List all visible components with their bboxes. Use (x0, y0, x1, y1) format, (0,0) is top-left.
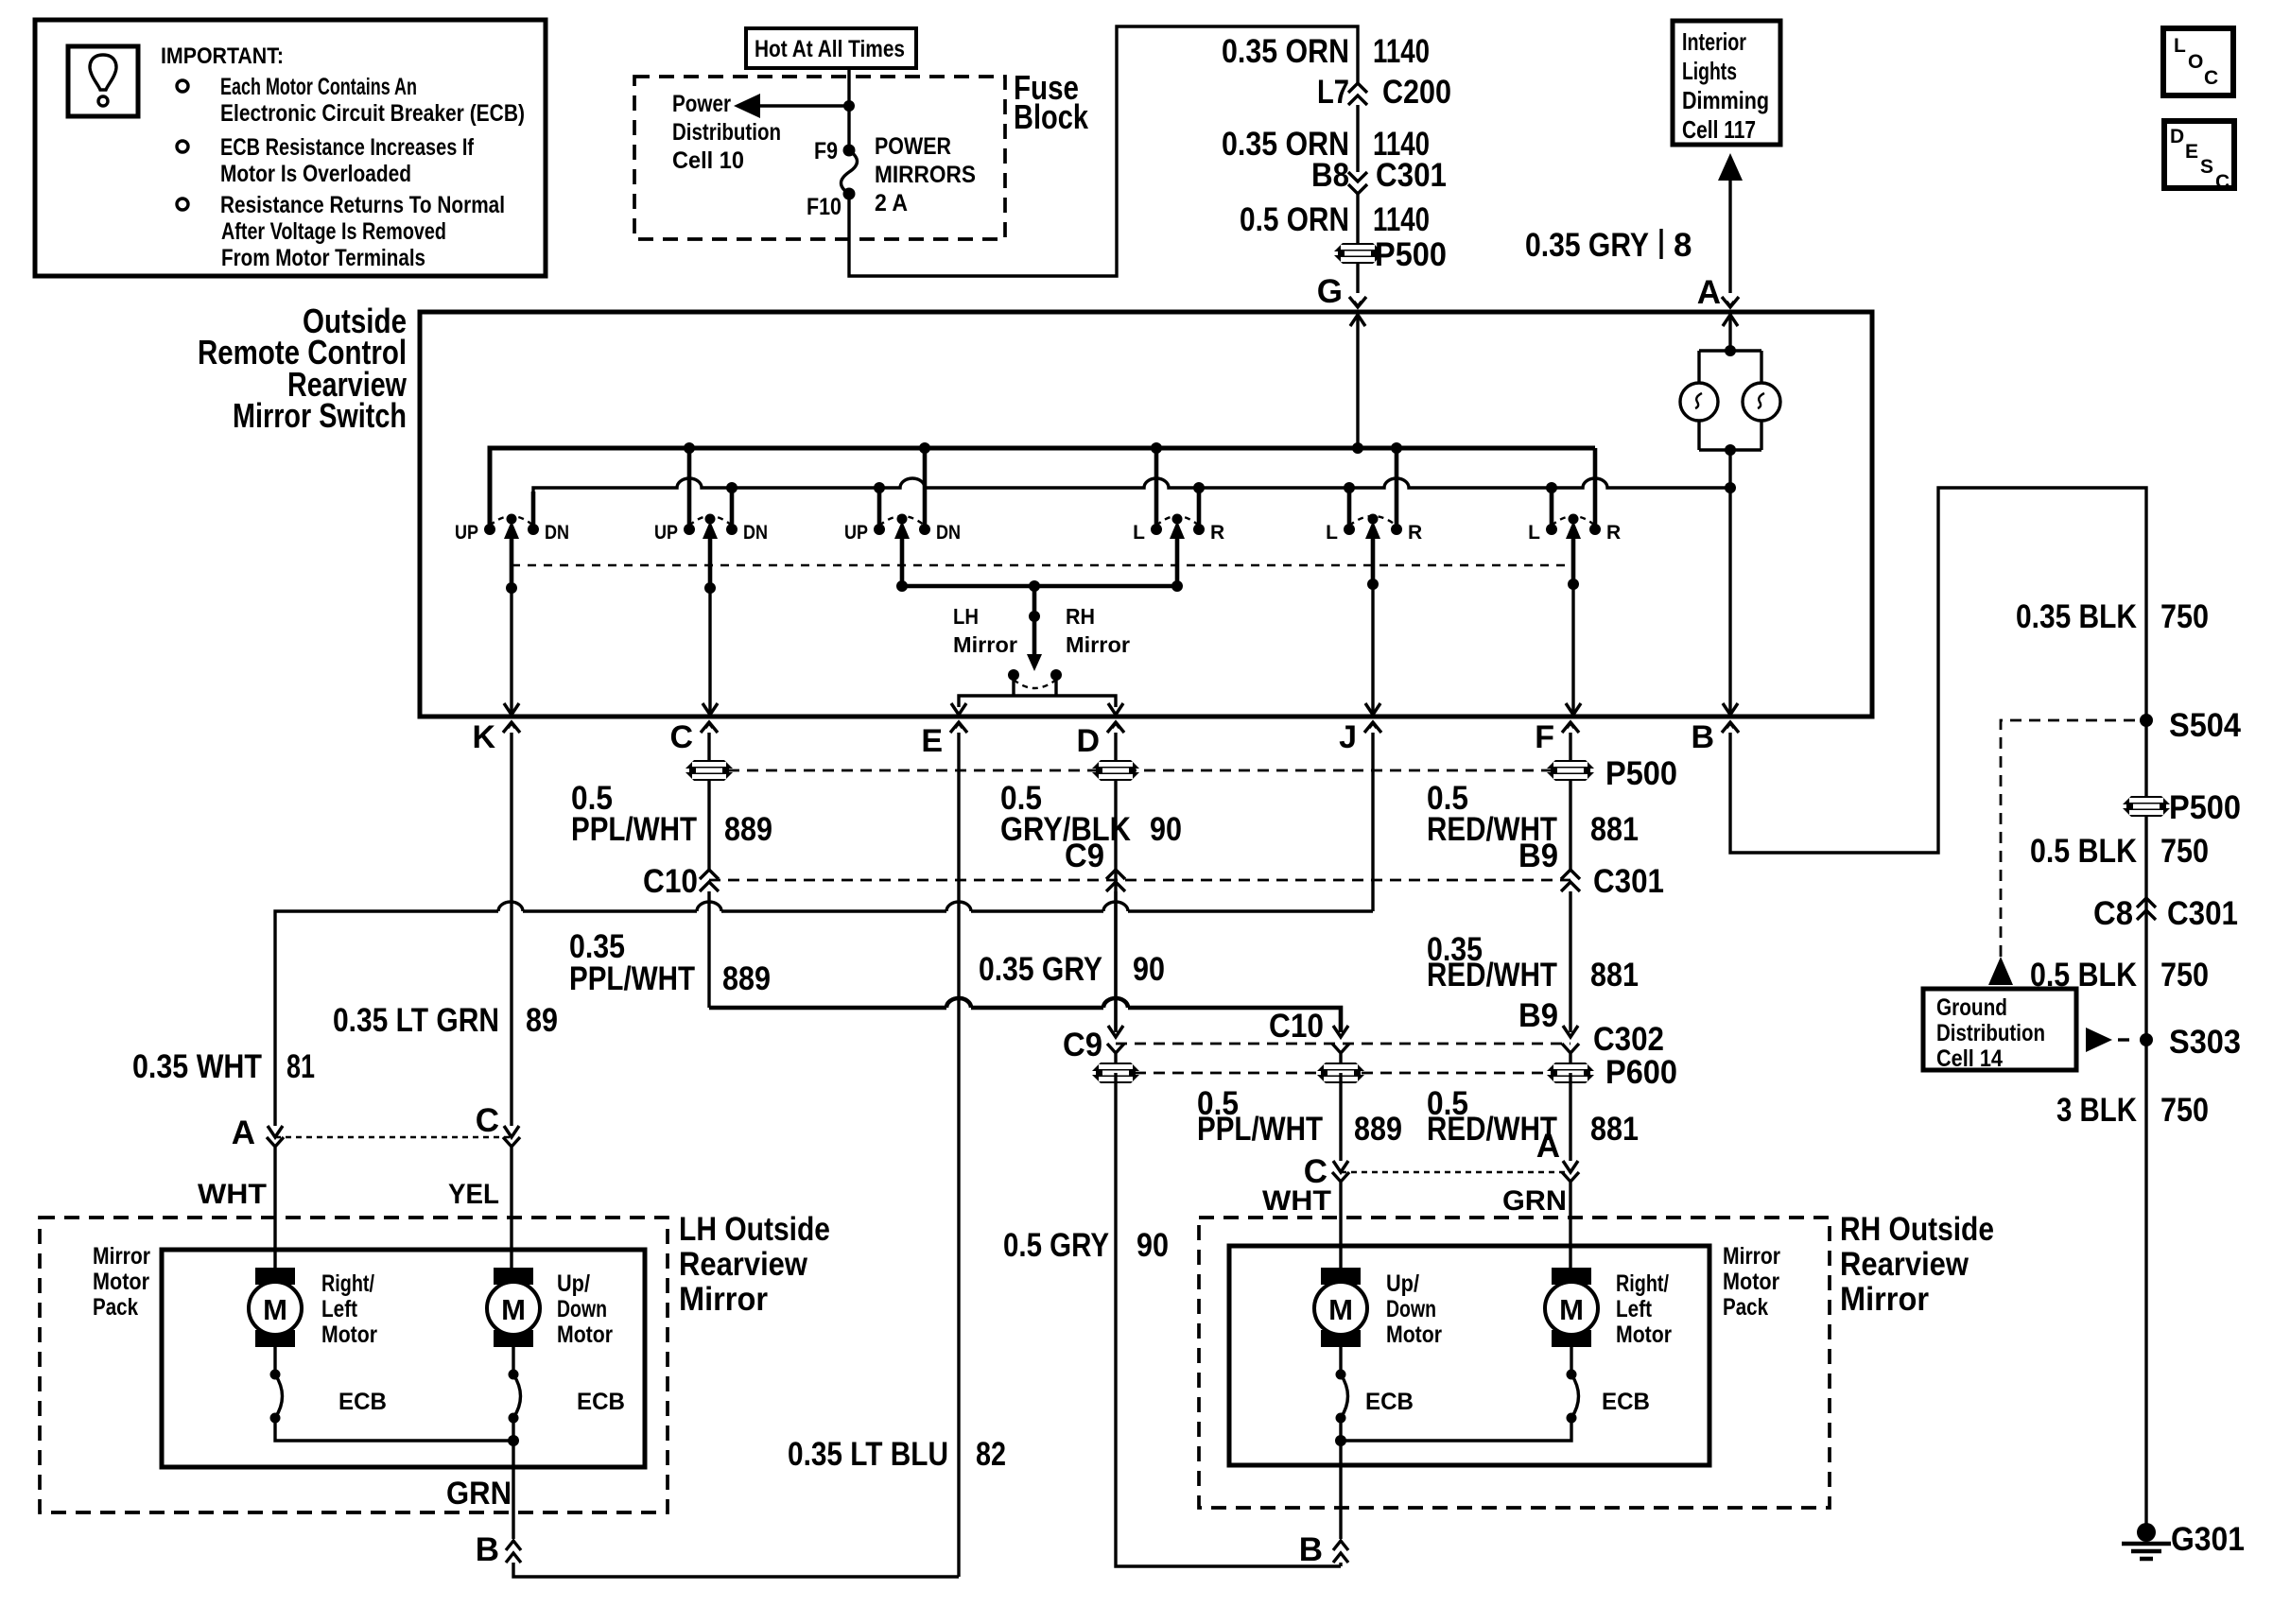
wire F splice down to RH connector A (1569, 1073, 1571, 1161)
svg-text:S303: S303 (2169, 1024, 2241, 1061)
svg-text:881: 881 (1590, 811, 1639, 848)
svg-text:881: 881 (1590, 957, 1639, 993)
svg-text:889: 889 (722, 960, 771, 997)
svg-text:0.5 GRY: 0.5 GRY (1003, 1227, 1109, 1264)
svg-text:PPL/WHT: PPL/WHT (569, 960, 695, 997)
wire terminal K down to connector (510, 733, 512, 1126)
connector RH mirror dashed row (1341, 1171, 1570, 1173)
svg-text:P500: P500 (2169, 789, 2241, 826)
svg-text:1140: 1140 (1373, 201, 1430, 238)
connector C301 dashed row (709, 879, 1570, 882)
node second bus switch5 L (1344, 482, 1355, 493)
svg-text:From Motor Terminals: From Motor Terminals (221, 245, 425, 271)
svg-text:D: D (2170, 126, 2184, 147)
svg-text:Left: Left (321, 1296, 358, 1322)
switch3 dn stub (923, 448, 928, 526)
node second bus switch3 up (874, 482, 885, 493)
svg-text:C10: C10 (643, 863, 698, 900)
fuse POWER MIRRORS 2A (842, 150, 858, 194)
svg-text:WHT: WHT (1262, 1185, 1331, 1217)
svg-text:2 A: 2 A (875, 190, 908, 216)
wire LH common to connector B (512, 1418, 514, 1539)
svg-text:Motor Is Overloaded: Motor Is Overloaded (220, 161, 411, 187)
motor M up/down LH (494, 1268, 533, 1285)
svg-text:D: D (1076, 723, 1100, 759)
svg-text:Hot At All Times: Hot At All Times (755, 36, 905, 62)
switch4 wiper to selector link (1175, 533, 1180, 586)
switch4 contacts and wiper pivot (1151, 524, 1162, 535)
wire hot feed down to fuse F9 (847, 68, 850, 150)
switch6 wiper to terminal F (1571, 584, 1574, 715)
lamp parallel rails (1699, 351, 1761, 450)
svg-text:Up/: Up/ (557, 1270, 590, 1297)
svg-text:UP: UP (654, 522, 678, 544)
motor M right/left RH (1552, 1268, 1591, 1285)
svg-text:Dimming: Dimming (1682, 86, 1769, 114)
wire motor to ECB LH right/left (273, 1347, 276, 1373)
svg-text:Mirror: Mirror (1840, 1281, 1929, 1318)
connector C301 pin B8 (1348, 172, 1367, 194)
svg-text:0.35 BLK: 0.35 BLK (2016, 598, 2137, 635)
svg-text:RH: RH (1066, 604, 1095, 629)
pin F9 (843, 145, 856, 157)
svg-text:Resistance Returns To Normal: Resistance Returns To Normal (220, 192, 505, 218)
svg-text:MIRRORS: MIRRORS (875, 162, 976, 188)
svg-text:RED/WHT: RED/WHT (1427, 957, 1557, 993)
svg-text:B: B (1691, 719, 1714, 755)
svg-text:IMPORTANT:: IMPORTANT: (161, 43, 284, 69)
switch1 dn stub (531, 492, 536, 526)
svg-text:90: 90 (1150, 811, 1182, 848)
switch1 contacts and wiper pivot (484, 524, 495, 535)
ground G301 (2137, 1523, 2156, 1542)
svg-text:RH Outside: RH Outside (1840, 1211, 1994, 1248)
svg-text:881: 881 (1590, 1111, 1639, 1148)
svg-text:90: 90 (1136, 1227, 1169, 1264)
svg-text:750: 750 (2160, 598, 2209, 635)
breaker ECB LH right/left (270, 1370, 281, 1380)
svg-text:0.35 GRY: 0.35 GRY (1525, 227, 1649, 264)
switch6 contacts and wiper pivot (1546, 524, 1557, 535)
switch5 contacts and wiper pivot (1344, 524, 1355, 535)
arrow into ground distribution cell (1988, 957, 2013, 985)
wire C10 splice down to RH connector C (1339, 1073, 1342, 1161)
svg-text:C: C (669, 719, 693, 755)
svg-text:G: G (1317, 273, 1343, 310)
svg-text:Motor: Motor (1616, 1322, 1672, 1348)
svg-text:Each Motor Contains An: Each Motor Contains An (220, 74, 417, 100)
svg-text:DN: DN (743, 522, 768, 544)
RH mirror motor pack box (1229, 1246, 1709, 1465)
switch5 wiper to terminal J (1371, 584, 1374, 715)
svg-text:P600: P600 (1605, 1054, 1677, 1091)
connector C302 dashed row (1116, 1043, 1570, 1045)
wire terminal J down to crossover bus (1371, 733, 1374, 911)
svg-text:Motor: Motor (93, 1269, 149, 1295)
switch4 R stub (1197, 492, 1202, 526)
node second bus switch6 L (1546, 482, 1557, 493)
wire terminal C down (707, 733, 710, 870)
svg-text:Distribution: Distribution (1936, 1020, 2045, 1046)
svg-text:M: M (1328, 1293, 1353, 1326)
svg-text:0.35 WHT: 0.35 WHT (132, 1048, 262, 1085)
wire C301 to splice P500 (1356, 194, 1359, 293)
node top bus switch4 L (1151, 442, 1162, 454)
svg-text:81: 81 (286, 1048, 315, 1085)
tag box DESC (2164, 121, 2234, 188)
svg-text:F10: F10 (807, 194, 842, 220)
splice P600 on wire F (1547, 1063, 1594, 1083)
svg-text:Pack: Pack (93, 1294, 138, 1321)
svg-text:M: M (501, 1293, 526, 1326)
svg-text:ECB: ECB (338, 1389, 387, 1415)
switch6 R stub (1593, 448, 1598, 526)
svg-text:3 BLK: 3 BLK (2056, 1092, 2137, 1129)
wire terminal E down to LH mirror return (957, 733, 960, 1577)
svg-text:S504: S504 (2169, 707, 2241, 744)
selector dashed arc (1014, 680, 1056, 688)
node top bus switch2 up (684, 442, 695, 454)
RH mirror dashed housing (1199, 1218, 1830, 1508)
svg-text:889: 889 (1354, 1111, 1402, 1148)
svg-text:C301: C301 (1593, 863, 1664, 900)
svg-text:Interior: Interior (1682, 27, 1746, 56)
svg-text:A: A (1697, 274, 1721, 311)
breaker ECB RH up/down (1336, 1370, 1346, 1380)
pin F10 (843, 188, 856, 200)
switch5 R stub (1395, 448, 1399, 526)
hot at all times box (746, 28, 916, 68)
svg-text:Motor: Motor (557, 1322, 613, 1348)
svg-text:Rearview: Rearview (1840, 1246, 1969, 1283)
splice P600 on wire C10 branch (1317, 1063, 1364, 1083)
node LH common (508, 1435, 519, 1446)
LH mirror motor pack box (162, 1250, 645, 1467)
svg-text:Right/: Right/ (321, 1270, 374, 1297)
illumination lamp 2 (1743, 383, 1780, 421)
svg-text:ECB Resistance Increases If: ECB Resistance Increases If (220, 134, 475, 161)
arrow into interior lights box (1718, 153, 1743, 181)
wire ECB to common LH (275, 1418, 513, 1441)
wire motor to ECB LH up/down (512, 1347, 514, 1373)
motor M up/down RH (1321, 1268, 1361, 1285)
switch1 wiper to terminal K (510, 588, 512, 715)
junction feed tap (843, 100, 855, 112)
note icon bulb (90, 55, 116, 90)
illumination lamp 1 (1680, 383, 1718, 421)
svg-text:Right/: Right/ (1616, 1270, 1669, 1297)
svg-text:Down: Down (557, 1296, 607, 1322)
svg-text:82: 82 (976, 1436, 1006, 1473)
svg-text:F: F (1535, 719, 1554, 755)
svg-text:Mirror: Mirror (93, 1243, 150, 1270)
svg-text:B8: B8 (1311, 157, 1349, 194)
svg-text:C: C (2215, 171, 2230, 193)
svg-text:K: K (472, 719, 495, 755)
svg-text:P500: P500 (1375, 236, 1447, 273)
fuse block dashed outline (634, 77, 1005, 239)
svg-text:889: 889 (724, 811, 772, 848)
svg-text:Block: Block (1014, 97, 1089, 136)
selector bracket to E and D (959, 680, 1116, 707)
svg-text:PPL/WHT: PPL/WHT (1197, 1111, 1323, 1148)
wire A to interior lights (1728, 181, 1731, 293)
splice S303 (2140, 1033, 2153, 1046)
svg-text:C: C (2204, 67, 2218, 89)
dashed link S504 to ground distribution (2001, 720, 2135, 959)
svg-text:E: E (921, 723, 943, 759)
svg-text:UP: UP (455, 522, 478, 544)
switch box outline Outside Remote Control Rearview Mirror Switch (420, 312, 1872, 717)
wire ECB to common RH (1341, 1418, 1571, 1441)
svg-text:ECB: ECB (1365, 1389, 1414, 1415)
svg-text:C: C (476, 1102, 499, 1139)
svg-text:S: S (2200, 156, 2213, 178)
svg-text:0.5 BLK: 0.5 BLK (2030, 833, 2137, 870)
svg-text:750: 750 (2160, 833, 2209, 870)
svg-text:Motor: Motor (1386, 1322, 1442, 1348)
svg-text:B: B (476, 1531, 499, 1568)
svg-text:GRN: GRN (1502, 1185, 1567, 1217)
svg-text:B9: B9 (1518, 838, 1558, 874)
node top bus switch5 R (1391, 442, 1402, 454)
svg-text:F9: F9 (814, 138, 838, 164)
svg-text:LH: LH (953, 604, 979, 629)
svg-text:Motor: Motor (1723, 1269, 1779, 1295)
switch3 wiper to selector link (900, 533, 905, 586)
svg-text:Motor: Motor (321, 1322, 377, 1348)
wire terminal B ground run (1730, 488, 2146, 1524)
mechanical link dashed line (512, 564, 1573, 567)
svg-text:R: R (1606, 522, 1621, 544)
node second bus lamp return (1725, 482, 1736, 493)
splice S504 (2140, 714, 2153, 727)
svg-text:Mirror: Mirror (1723, 1243, 1780, 1270)
svg-text:Ground: Ground (1936, 994, 2007, 1021)
svg-text:0.35 LT BLU: 0.35 LT BLU (788, 1436, 948, 1473)
note bullet 2 (177, 141, 188, 152)
svg-text:L7: L7 (1317, 74, 1349, 111)
LH mirror dashed housing (40, 1218, 668, 1512)
svg-text:Left: Left (1616, 1296, 1653, 1322)
svg-text:B9: B9 (1518, 997, 1558, 1034)
wire C200 to C301 (1356, 105, 1359, 172)
note icon box (68, 46, 138, 116)
svg-text:M: M (1559, 1293, 1584, 1326)
selector link wire (902, 584, 1177, 589)
switch2 dn stub (730, 492, 735, 526)
svg-text:M: M (263, 1293, 287, 1326)
svg-text:C9: C9 (1063, 1027, 1102, 1063)
svg-text:Up/: Up/ (1386, 1270, 1419, 1297)
wire arrow to power distribution (756, 104, 849, 107)
lamp circuit feed from A (1723, 315, 1738, 326)
switch5 L stub (1347, 492, 1352, 526)
switch3 contacts and wiper pivot (874, 524, 885, 535)
ground distribution cell box (1923, 989, 2076, 1070)
splice row P600 dashed link (1116, 1072, 1570, 1075)
splice row P500 dashed link (709, 769, 1570, 772)
svg-text:Lights: Lights (1682, 57, 1737, 85)
selector LH contact (1008, 669, 1019, 681)
wire motor to ECB RH right/left (1570, 1347, 1572, 1373)
svg-text:PPL/WHT: PPL/WHT (571, 811, 697, 848)
splice P500 on wire D (1092, 760, 1139, 781)
svg-text:Cell 14: Cell 14 (1936, 1045, 2003, 1072)
splice P500 on wire C (685, 760, 733, 781)
svg-text:E: E (2185, 141, 2198, 163)
selector RH contact (1050, 669, 1062, 681)
svg-text:R: R (1210, 522, 1224, 544)
switch1 up stub (488, 448, 493, 526)
wire terminal F down (1569, 733, 1571, 870)
switch3 up stub (877, 492, 882, 526)
note icon dot (98, 96, 108, 106)
wire motor to ECB RH up/down (1339, 1347, 1342, 1373)
selector arm LH/RH (1032, 586, 1037, 656)
svg-text:Down: Down (1386, 1296, 1436, 1322)
svg-text:0.35 ORN: 0.35 ORN (1222, 33, 1349, 70)
svg-text:750: 750 (2160, 957, 2209, 993)
tag box LOC (2163, 28, 2233, 95)
svg-text:L: L (1528, 522, 1540, 544)
svg-text:L: L (1133, 522, 1145, 544)
node RH common (1335, 1435, 1346, 1446)
connector LH mirror dashed row (275, 1136, 512, 1138)
node top bus switch3 dn (919, 442, 930, 454)
svg-text:Cell 10: Cell 10 (672, 147, 744, 174)
svg-text:L: L (2174, 35, 2186, 57)
svg-text:GRN: GRN (446, 1476, 512, 1512)
bus wire C to RH up-down branch (709, 1008, 1341, 1032)
node second bus switch4 R (1193, 482, 1205, 493)
switch6 L stub (1550, 492, 1554, 526)
switch4 L stub (1154, 448, 1159, 526)
note box IMPORTANT border (35, 20, 546, 276)
svg-text:750: 750 (2160, 1092, 2209, 1129)
svg-text:C200: C200 (1382, 74, 1451, 111)
note bullet 3 (177, 199, 188, 210)
switch2 up stub (687, 448, 692, 526)
svg-text:C301: C301 (1376, 157, 1447, 194)
svg-text:Distribution: Distribution (672, 119, 781, 146)
svg-text:A: A (1536, 1128, 1560, 1165)
connector C200 pin L7 (1348, 83, 1367, 105)
svg-text:Power: Power (672, 91, 731, 117)
svg-text:After Voltage Is Removed: After Voltage Is Removed (221, 218, 446, 245)
svg-text:R: R (1408, 522, 1422, 544)
splice P500 on wire F (1547, 760, 1594, 781)
svg-text:C301: C301 (2167, 895, 2238, 932)
interior lights dimming box (1673, 21, 1780, 145)
svg-text:Mirror Switch: Mirror Switch (233, 396, 407, 435)
wire D splice to RH mirror return (1116, 1073, 1341, 1566)
bus wire terminal J to left branch (275, 911, 1373, 1126)
svg-text:0.35 LT GRN: 0.35 LT GRN (333, 1002, 499, 1039)
svg-text:Cell 117: Cell 117 (1682, 115, 1756, 144)
svg-text:Pack: Pack (1723, 1294, 1768, 1321)
svg-text:J: J (1339, 719, 1357, 755)
svg-text:L: L (1326, 522, 1338, 544)
svg-text:1140: 1140 (1373, 33, 1430, 70)
svg-text:O: O (2188, 51, 2203, 73)
splice P500 on feed (1334, 243, 1381, 264)
svg-text:0.35 GRY: 0.35 GRY (979, 951, 1102, 988)
wire fuse output to switch G feed (849, 26, 1358, 276)
svg-text:POWER: POWER (875, 133, 951, 160)
svg-text:Rearview: Rearview (679, 1246, 808, 1283)
svg-text:Mirror: Mirror (679, 1281, 768, 1318)
splice P500 on ground wire (2123, 796, 2170, 817)
svg-text:ECB: ECB (1602, 1389, 1650, 1415)
splice P600 on wire D (1092, 1063, 1139, 1083)
svg-text:Electronic Circuit Breaker (EC: Electronic Circuit Breaker (ECB) (220, 100, 525, 127)
svg-text:YEL: YEL (448, 1179, 499, 1210)
note bullet 1 (177, 80, 188, 92)
svg-text:C8: C8 (2093, 895, 2133, 932)
svg-text:DN: DN (936, 522, 961, 544)
svg-text:Mirror: Mirror (953, 632, 1017, 657)
arrow ground distribution to S303 (2086, 1028, 2112, 1052)
top bus (490, 448, 1595, 526)
svg-text:C9: C9 (1065, 838, 1104, 874)
svg-text:ECB: ECB (577, 1389, 625, 1415)
svg-text:C302: C302 (1593, 1021, 1664, 1058)
svg-text:0.5 ORN: 0.5 ORN (1240, 201, 1349, 238)
svg-text:90: 90 (1133, 951, 1165, 988)
breaker ECB RH right/left (1567, 1370, 1577, 1380)
switch2 wiper to terminal C (708, 588, 711, 715)
motor M right/left LH (255, 1268, 295, 1285)
wire RH common to connector B (1339, 1418, 1342, 1539)
node top bus G feed (1352, 442, 1363, 454)
svg-text:DN: DN (545, 522, 569, 544)
svg-text:Mirror: Mirror (1066, 632, 1130, 657)
switch2 contacts and wiper pivot (684, 524, 695, 535)
svg-text:8: 8 (1674, 227, 1692, 264)
wire terminal D down (1114, 733, 1117, 1032)
svg-text:B: B (1299, 1531, 1323, 1568)
svg-text:G301: G301 (2171, 1521, 2245, 1558)
svg-text:LH Outside: LH Outside (679, 1211, 830, 1248)
svg-text:C10: C10 (1269, 1008, 1324, 1045)
svg-text:UP: UP (844, 522, 868, 544)
wire G feed into box to top bus (1350, 315, 1365, 326)
second bus (533, 478, 1730, 526)
svg-text:P500: P500 (1605, 755, 1677, 792)
svg-text:89: 89 (526, 1002, 558, 1039)
node second bus switch2 dn (726, 482, 737, 493)
svg-text:A: A (232, 1114, 255, 1151)
breaker ECB LH up/down (509, 1370, 519, 1380)
wire lamps to terminal B (1728, 450, 1731, 715)
svg-text:WHT: WHT (198, 1179, 267, 1210)
